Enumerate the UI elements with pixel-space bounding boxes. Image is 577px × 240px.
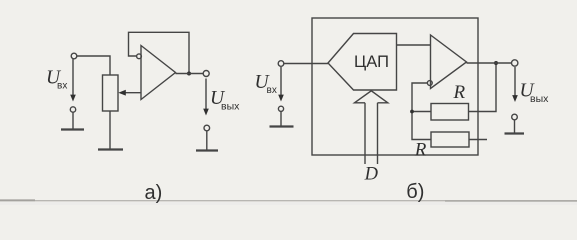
svg-text:R: R xyxy=(414,140,427,161)
svg-text:б): б) xyxy=(406,181,424,203)
svg-text:вых: вых xyxy=(530,93,549,105)
svg-text:вх: вх xyxy=(57,81,67,92)
svg-text:вых: вых xyxy=(221,100,240,112)
svg-text:а): а) xyxy=(145,182,163,204)
svg-text:D: D xyxy=(364,165,379,185)
svg-text:ЦАП: ЦАП xyxy=(354,53,389,71)
svg-text:R: R xyxy=(453,82,466,103)
svg-text:вх: вх xyxy=(267,85,277,96)
